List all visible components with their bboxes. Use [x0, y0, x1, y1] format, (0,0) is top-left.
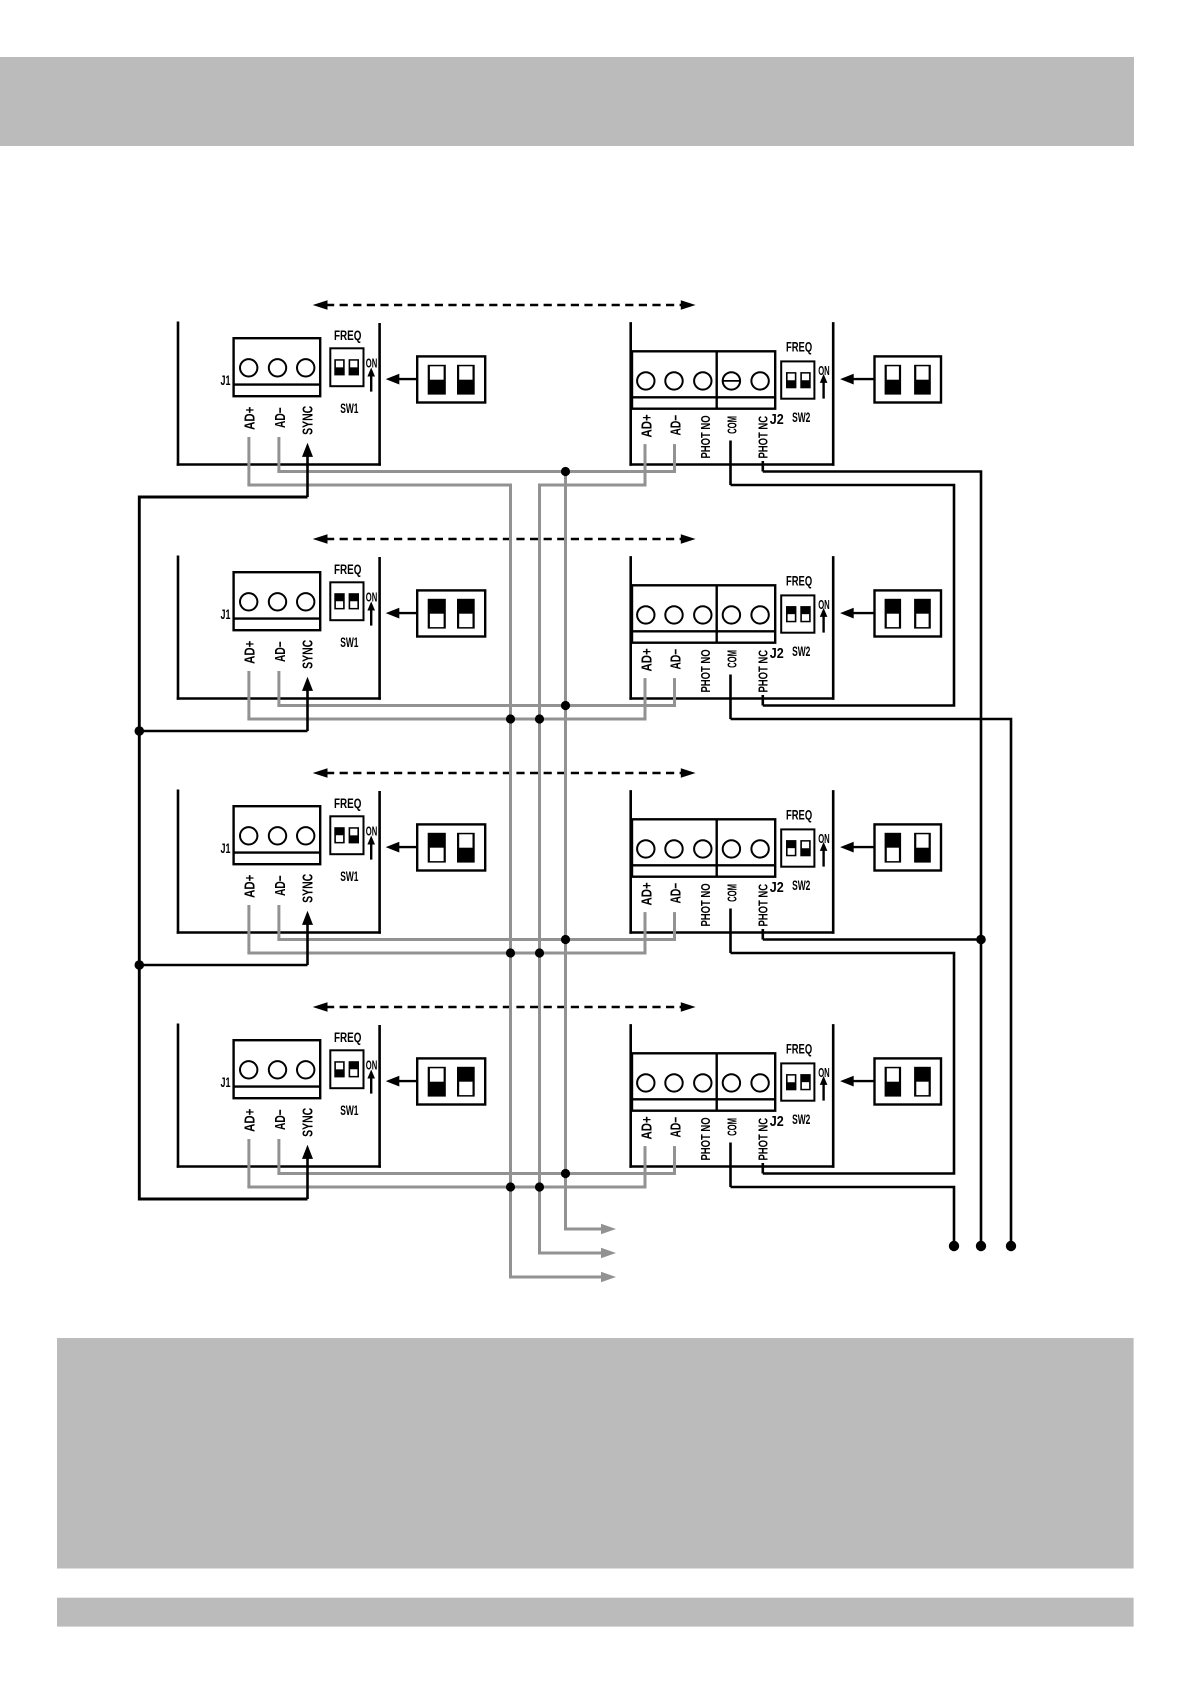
grey bus A (AD+ TX side) with output arrow: [511, 485, 617, 1282]
dashed distance arrow row 1: [313, 300, 696, 310]
svg-text:PHOT NC: PHOT NC: [757, 883, 771, 926]
grey bus C (AD-) with output arrow: [566, 472, 617, 1235]
arrow from detail DIP to SW2 row 2: [840, 608, 874, 619]
wire AD+ line row 3: [247, 952, 646, 955]
svg-text:AD−: AD−: [667, 649, 685, 670]
svg-text:J1: J1: [221, 841, 231, 856]
svg-text:FREQ: FREQ: [786, 806, 812, 822]
svg-text:COM: COM: [726, 650, 741, 668]
wire AD- line row 1: [277, 470, 676, 473]
svg-text:FREQ: FREQ: [786, 572, 812, 588]
terminal block J2 row 3: [632, 819, 775, 876]
terminal block J1 row 3: [234, 806, 321, 864]
wire RX AD+ stub row 4: [644, 1146, 647, 1187]
wire COM stub row 2: [729, 675, 732, 720]
photocell RX module row 4 outline: [629, 1024, 834, 1168]
junction AD- / bus C row 2: [561, 701, 570, 710]
svg-text:SW1: SW1: [340, 870, 359, 885]
svg-text:PHOT NC: PHOT NC: [757, 415, 771, 458]
junction AD- / bus C row 1: [561, 467, 570, 476]
wire TX AD- stub row 2: [277, 671, 280, 706]
svg-text:AD+: AD+: [638, 414, 655, 437]
svg-text:AD+: AD+: [638, 882, 655, 905]
photocell RX module row 1 outline: [629, 322, 834, 466]
arrow from detail DIP to SW1 row 3: [386, 842, 418, 853]
arrow from detail DIP to SW1 row 1: [386, 374, 418, 385]
wire TX AD+ stub row 4: [247, 1139, 250, 1187]
top grey header bar: [0, 57, 1134, 146]
terminal block J1 row 4: [234, 1040, 321, 1098]
svg-text:AD−: AD−: [271, 1109, 289, 1130]
junction PHOT NC row3 on x=981: [976, 935, 986, 945]
bottom thin grey bar: [57, 1598, 1134, 1627]
svg-text:COM: COM: [726, 416, 741, 434]
wire RX AD+ stub row 2: [644, 678, 647, 719]
dashed distance arrow row 4: [313, 1002, 696, 1012]
svg-text:SW2: SW2: [792, 411, 810, 426]
wire AD+ line row 2: [247, 718, 646, 721]
junction AD+ / bus A row 2: [506, 714, 515, 723]
photocell TX module row 1 outline: [177, 322, 381, 466]
ON up-arrow (TX) row 4: [367, 1070, 375, 1094]
DIP switch SW2 row 4: [781, 1063, 814, 1100]
wire SYNC bus (row1 to row4 via left side): [139, 497, 307, 1199]
terminal block J2 row 2: [632, 585, 775, 642]
wire PHOT NC stub row 2: [761, 695, 764, 706]
svg-text:COM: COM: [726, 1118, 741, 1136]
svg-text:J2: J2: [770, 644, 784, 661]
svg-text:AD−: AD−: [667, 1117, 685, 1138]
ON up-arrow (TX) row 3: [367, 836, 375, 860]
DIP switch detail (TX) row 3: [417, 824, 485, 870]
terminal dot x=981: [976, 1241, 986, 1251]
SYNC arrow row 2: [302, 677, 313, 731]
SYNC arrow row 1: [302, 443, 313, 497]
svg-text:FREQ: FREQ: [334, 1029, 361, 1045]
wire PHOT NC stub row 3: [761, 929, 764, 940]
svg-text:SYNC: SYNC: [299, 640, 316, 669]
svg-text:FREQ: FREQ: [334, 327, 361, 343]
wire PHOT NC stub row 1: [761, 461, 764, 472]
svg-text:AD+: AD+: [241, 641, 258, 664]
wire SYNC row 2 branch: [139, 730, 307, 733]
svg-text:J2: J2: [770, 410, 784, 427]
svg-text:J2: J2: [770, 1112, 784, 1129]
wire PHOT NC stub row 4: [761, 1163, 764, 1174]
svg-text:PHOT NO: PHOT NO: [700, 1117, 714, 1160]
wire TX AD+ stub row 3: [247, 905, 250, 953]
SYNC arrow row 4: [302, 1145, 313, 1199]
DIP switch detail (RX) row 4: [875, 1058, 942, 1104]
wire COM row4 down to output (x=954): [731, 1187, 955, 1246]
wire SYNC row 3 branch: [139, 964, 307, 967]
junction AD+ / bus A row 3: [506, 948, 515, 957]
DIP switch detail (TX) row 4: [417, 1058, 485, 1104]
ON up-arrow (TX) row 2: [367, 602, 375, 626]
svg-text:AD−: AD−: [271, 875, 289, 896]
junction AD+ / bus B row 3: [535, 948, 544, 957]
wire COM stub row 3: [729, 909, 732, 954]
svg-text:FREQ: FREQ: [334, 795, 361, 811]
ON up-arrow (RX) row 4: [820, 1076, 828, 1101]
svg-text:COM: COM: [726, 884, 741, 902]
wire COM stub row 1: [729, 441, 732, 486]
DIP switch SW2 row 3: [781, 829, 814, 866]
terminal dot x=954: [949, 1241, 959, 1251]
svg-text:AD−: AD−: [667, 415, 685, 436]
wire AD- line row 3: [277, 938, 676, 941]
ON up-arrow (TX) row 1: [367, 368, 375, 392]
wire COM stub row 4: [729, 1143, 732, 1188]
svg-text:PHOT NC: PHOT NC: [757, 649, 771, 692]
terminal block J2 row 1: [632, 351, 775, 408]
svg-text:AD−: AD−: [667, 883, 685, 904]
terminal block J1 row 2: [234, 572, 321, 630]
svg-text:AD−: AD−: [271, 407, 289, 428]
wire PHOT NC row1 down to output (x=981): [763, 472, 981, 1247]
photocell RX module row 3 outline: [629, 790, 834, 934]
svg-text:PHOT NO: PHOT NO: [700, 415, 714, 458]
svg-text:J2: J2: [770, 878, 784, 895]
junction AD+ / bus B row 4: [535, 1182, 544, 1191]
wire AD+ line (TX to bus) row 1: [247, 484, 512, 487]
svg-text:J1: J1: [221, 1075, 231, 1090]
svg-text:AD+: AD+: [638, 648, 655, 671]
svg-text:PHOT NO: PHOT NO: [700, 649, 714, 692]
dashed distance arrow row 3: [313, 768, 696, 778]
wire RX AD- stub row 1: [673, 444, 676, 471]
svg-text:FREQ: FREQ: [786, 338, 812, 354]
wire AD+ line row 4: [247, 1186, 646, 1189]
svg-text:AD+: AD+: [241, 875, 258, 898]
DIP switch SW2 row 1: [781, 361, 814, 398]
svg-text:AD+: AD+: [638, 1116, 655, 1139]
wire TX AD+ stub row 1: [247, 437, 250, 485]
junction AD- / bus C row 4: [561, 1169, 570, 1178]
svg-text:AD−: AD−: [271, 641, 289, 662]
svg-text:FREQ: FREQ: [786, 1040, 812, 1056]
svg-text:SW2: SW2: [792, 645, 810, 660]
wire RX AD- stub row 4: [673, 1146, 676, 1173]
DIP switch SW2 row 2: [781, 595, 814, 632]
wire RX AD- stub row 2: [673, 678, 676, 705]
DIP switch detail (RX) row 2: [875, 590, 942, 636]
wire COM row2 down to output (x=1011): [731, 719, 1012, 1246]
arrow from detail DIP to SW2 row 3: [840, 842, 874, 853]
ON up-arrow (RX) row 2: [820, 608, 828, 633]
svg-text:SW1: SW1: [340, 402, 359, 417]
ON up-arrow (RX) row 1: [820, 374, 828, 399]
wire RX AD+ stub row 3: [644, 912, 647, 953]
DIP switch detail (TX) row 1: [417, 356, 485, 402]
svg-text:FREQ: FREQ: [334, 561, 361, 577]
wire AD+ line (bus to RX) row 1: [538, 484, 647, 487]
wire COM row3 to PHOT NC row4: [731, 953, 955, 1174]
junction SYNC bus row 3: [135, 960, 145, 970]
bottom grey text block: [57, 1338, 1134, 1569]
DIP switch SW1 row 1: [330, 348, 363, 386]
DIP switch SW1 row 4: [330, 1050, 363, 1088]
svg-text:J1: J1: [221, 607, 231, 622]
photocell TX module row 2 outline: [177, 556, 381, 700]
wire PHOT NC row3 branch: [763, 938, 981, 941]
svg-text:SW1: SW1: [340, 1104, 359, 1119]
svg-text:PHOT NC: PHOT NC: [757, 1117, 771, 1160]
ON up-arrow (RX) row 3: [820, 842, 828, 867]
svg-text:SYNC: SYNC: [299, 406, 316, 435]
grey bus B (AD+ RX side) with output arrow: [540, 485, 617, 1258]
wire AD- line row 2: [277, 704, 676, 707]
photocell TX module row 3 outline: [177, 790, 381, 934]
DIP switch SW1 row 3: [330, 816, 363, 854]
terminal block J2 row 4: [632, 1053, 775, 1110]
arrow from detail DIP to SW2 row 4: [840, 1076, 874, 1087]
svg-text:SYNC: SYNC: [299, 1108, 316, 1137]
junction SYNC bus row 2: [135, 726, 145, 736]
wire AD- line row 4: [277, 1172, 676, 1175]
junction AD- / bus C row 3: [561, 935, 570, 944]
wire TX AD- stub row 3: [277, 905, 280, 940]
svg-text:AD+: AD+: [241, 407, 258, 430]
photocell RX module row 2 outline: [629, 556, 834, 700]
arrow from detail DIP to SW2 row 1: [840, 374, 874, 385]
wire TX AD- stub row 1: [277, 437, 280, 472]
DIP switch detail (TX) row 2: [417, 590, 485, 636]
svg-text:AD+: AD+: [241, 1109, 258, 1132]
svg-text:PHOT NO: PHOT NO: [700, 883, 714, 926]
svg-text:SW1: SW1: [340, 636, 359, 651]
DIP switch SW1 row 2: [330, 582, 363, 620]
dashed distance arrow row 2: [313, 534, 696, 544]
junction AD+ / bus B row 2: [535, 714, 544, 723]
arrow from detail DIP to SW1 row 2: [386, 608, 418, 619]
DIP switch detail (RX) row 1: [875, 356, 942, 402]
SYNC arrow row 3: [302, 911, 313, 965]
terminal block J1 row 1: [234, 338, 321, 396]
terminal dot x=1011: [1006, 1241, 1016, 1251]
photocell TX module row 4 outline: [177, 1024, 381, 1168]
svg-text:J1: J1: [221, 373, 231, 388]
svg-text:SW2: SW2: [792, 1113, 810, 1128]
wire TX AD+ stub row 2: [247, 671, 250, 719]
arrow from detail DIP to SW1 row 4: [386, 1076, 418, 1087]
wire RX AD- stub row 3: [673, 912, 676, 939]
junction AD+ / bus A row 4: [506, 1182, 515, 1191]
DIP switch detail (RX) row 3: [875, 824, 942, 870]
svg-text:SYNC: SYNC: [299, 874, 316, 903]
wire RX AD+ stub row 1: [644, 444, 647, 485]
wire TX AD- stub row 4: [277, 1139, 280, 1174]
wire COM row1 to PHOT NC row2: [731, 485, 955, 706]
svg-text:SW2: SW2: [792, 879, 810, 894]
